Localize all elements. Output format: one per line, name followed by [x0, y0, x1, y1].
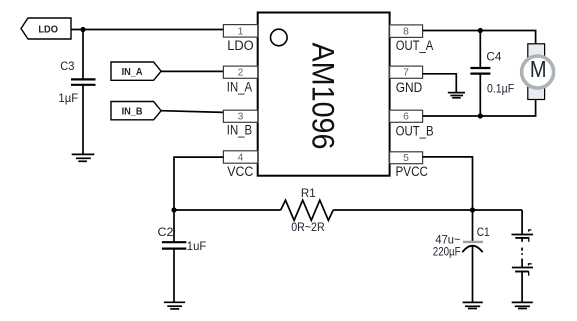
svg-text:PVCC: PVCC: [396, 164, 429, 179]
ground (C1): [463, 302, 483, 308]
wire junction to R1: [174, 209, 281, 211]
svg-text:0R~2R: 0R~2R: [291, 220, 325, 234]
svg-text:6: 6: [403, 112, 409, 123]
svg-text:C1: C1: [477, 225, 490, 239]
wire pin 6 to motor bottom: [423, 100, 536, 117]
wire C3 to ground: [82, 85, 84, 155]
svg-text:220µF: 220µF: [433, 244, 461, 258]
resistor R1: [281, 188, 334, 234]
svg-text:1uF: 1uF: [187, 239, 207, 253]
ground (battery): [512, 302, 533, 308]
pin 6 OUT_B: [390, 110, 434, 138]
wire pin 4 VCC to left rail: [174, 157, 223, 210]
node PVCC/C1 junction: [470, 207, 475, 212]
capacitor C3: [58, 59, 95, 105]
motor M terminals: [528, 44, 545, 100]
pin 4 VCC: [223, 151, 257, 179]
wire IN_A flag to pin 2: [161, 70, 223, 72]
ground (C2): [164, 302, 185, 309]
svg-text:2: 2: [238, 68, 244, 79]
svg-text:C3: C3: [60, 59, 74, 73]
svg-text:C2: C2: [158, 225, 174, 239]
pin 8 OUT_A: [390, 25, 434, 53]
svg-text:OUT_B: OUT_B: [396, 123, 434, 138]
capacitor C4: [470, 31, 514, 117]
wire R1 to PVCC node: [333, 209, 472, 211]
pin 1 marker circle: [271, 29, 288, 46]
wire pin 5 to PVCC node: [423, 157, 473, 210]
wire pin 7 to ground: [423, 74, 457, 93]
wire IN_B flag to pin 3: [161, 111, 223, 113]
svg-text:LDO: LDO: [227, 38, 254, 53]
wire LDO flag to pin 1: [71, 29, 223, 31]
svg-text:0.1µF: 0.1µF: [487, 81, 514, 95]
pin 1 LDO: [223, 25, 257, 53]
svg-text:4: 4: [238, 153, 244, 164]
wire junction to C3: [82, 30, 84, 80]
wire PVCC node to battery: [473, 209, 523, 211]
svg-text:IN_A: IN_A: [227, 79, 252, 94]
svg-text:8: 8: [403, 27, 409, 38]
svg-text:1µF: 1µF: [58, 91, 78, 105]
svg-text:OUT_A: OUT_A: [396, 38, 434, 53]
IC U1 AM1096 body: [258, 13, 390, 176]
svg-text:GND: GND: [396, 80, 423, 95]
ground (C3): [72, 154, 95, 161]
svg-text:LDO: LDO: [38, 25, 58, 36]
pin 7 GND: [390, 66, 423, 95]
motor M body: [522, 56, 554, 88]
wire pin 8 to motor top: [423, 31, 536, 44]
svg-text:AM1096: AM1096: [305, 43, 341, 150]
net flag IN_A: [111, 62, 161, 80]
svg-text:C4: C4: [486, 50, 501, 64]
svg-text:7: 7: [403, 68, 409, 79]
node VCC/C2/R1 junction: [171, 207, 176, 212]
pin 3 IN_B: [223, 110, 257, 137]
battery BT1 cell 2: [512, 264, 533, 302]
node OUT_B/C4: [478, 113, 483, 118]
net flag IN_B: [111, 102, 161, 120]
pin 2 IN_A: [223, 66, 257, 94]
svg-text:M: M: [530, 56, 547, 83]
net flag LDO: [21, 18, 71, 39]
battery BT1 cell 1: [512, 210, 534, 242]
svg-text:IN_A: IN_A: [122, 67, 143, 78]
capacitor C2: [158, 210, 207, 302]
svg-text:IN_B: IN_B: [122, 106, 143, 117]
svg-text:IN_B: IN_B: [227, 123, 252, 138]
svg-text:3: 3: [238, 112, 244, 123]
svg-text:R1: R1: [301, 188, 316, 200]
ground (pin 7): [448, 93, 465, 98]
node OUT_A/C4: [478, 28, 483, 33]
pin 5 PVCC: [390, 152, 429, 179]
battery dash-dot link: [521, 238, 523, 267]
svg-text:5: 5: [403, 153, 409, 164]
node junction LDO/C3: [80, 27, 85, 32]
svg-text:1: 1: [238, 26, 244, 37]
capacitor C1 electrolytic: [433, 210, 490, 302]
svg-text:VCC: VCC: [227, 164, 253, 179]
